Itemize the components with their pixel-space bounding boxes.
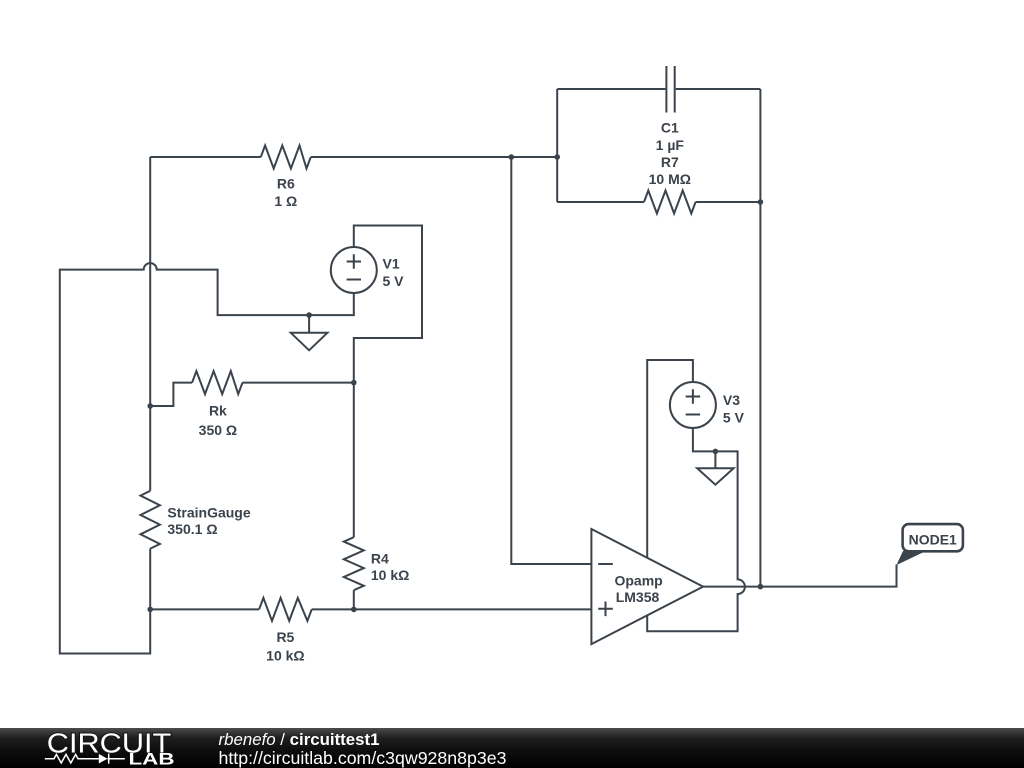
svg-text:R7: R7 (661, 154, 679, 170)
junction dot at R5 right / R4 bottom (351, 607, 357, 613)
junction dot on top net at inverting branch (509, 154, 515, 160)
wire R7 bottom horizontal (557, 201, 760, 203)
svg-text:10 kΩ: 10 kΩ (266, 647, 304, 663)
wire C1 box left vertical (556, 89, 558, 202)
resistor R7 (644, 154, 696, 214)
svg-text:LAB: LAB (129, 750, 175, 768)
resistor R6 (261, 146, 311, 209)
resistor R5 (259, 598, 312, 663)
wire R5 horizontal: left segment and right segment continuing to opamp + input (150, 608, 591, 610)
svg-text:10 kΩ: 10 kΩ (371, 567, 409, 583)
ground for V3 (697, 451, 733, 484)
wire right vertical from C1 box down to output junction (759, 89, 761, 587)
resistor R4 (344, 537, 410, 590)
svg-text:5 V: 5 V (383, 273, 405, 289)
CircuitLab logo text LAB (129, 750, 175, 768)
footer url (219, 748, 507, 768)
junction dot at opamp output / right vertical (758, 584, 764, 590)
svg-text:NODE1: NODE1 (909, 531, 957, 547)
svg-text:http://circuitlab.com/c3qw928n: http://circuitlab.com/c3qw928n8p3e3 (219, 748, 507, 768)
footer bar (0, 728, 1024, 768)
resistor Rk (192, 371, 242, 438)
svg-text:5 V: 5 V (723, 409, 745, 425)
voltage source V1 (331, 247, 404, 293)
svg-text:Opamp: Opamp (614, 572, 662, 588)
svg-text:R4: R4 (371, 550, 389, 566)
svg-text:Rk: Rk (209, 402, 227, 418)
junction dot at Rk left on left vertical (147, 403, 153, 409)
op-amp U1 Opamp LM358 (591, 529, 703, 644)
junction dot at R5 left / StrainGauge bottom (147, 607, 153, 613)
svg-text:StrainGauge: StrainGauge (167, 505, 250, 521)
svg-text:1 µF: 1 µF (656, 137, 685, 153)
svg-text:350.1 Ω: 350.1 Ω (167, 521, 217, 537)
junction dot at V3 ground tap (713, 449, 719, 455)
svg-text:350 Ω: 350 Ω (199, 422, 237, 438)
ground for V1 (291, 315, 328, 350)
wire Rk left step from node on left vertical (150, 383, 192, 406)
svg-text:R6: R6 (277, 176, 295, 192)
junction dot at R7 right / right vertical (758, 199, 764, 205)
svg-text:1 Ω: 1 Ω (274, 193, 297, 209)
wire top horizontal net at y=157 from left vertical to C1 box (150, 156, 557, 158)
wire left vertical from R6 left terminal down to StrainGauge top (149, 157, 151, 491)
capacitor C1 (656, 66, 685, 153)
svg-text:LM358: LM358 (616, 589, 660, 605)
wire opamp output with hop over V- wire, to NODE1 flag (703, 565, 896, 587)
wire C1 top horizontal (557, 88, 760, 90)
junction dot at Rk right on V1/R4 vertical (351, 380, 357, 386)
wire inverting input vertical from top net down to opamp - input (511, 157, 591, 564)
svg-text:V1: V1 (383, 255, 400, 271)
junction dot on top net at C1 box left (554, 154, 560, 160)
CircuitLab logo text CIRCUIT (47, 728, 172, 759)
wire Rk right to V1/R4 vertical (243, 382, 354, 384)
wire V1 positive loop: top, right side, bottom, down to R4 and R5 junction (354, 226, 422, 610)
wire opamp V+ supply up and over to V3 top (647, 360, 693, 558)
voltage source V3 (670, 382, 745, 428)
svg-text:R5: R5 (276, 629, 294, 645)
svg-text:V3: V3 (723, 392, 740, 408)
node NODE1 flag (897, 524, 963, 565)
wire V3 negative terminal right and down to opamp V- supply (647, 428, 745, 631)
svg-text:C1: C1 (661, 119, 679, 135)
CircuitLab logo resistor-diode symbol (45, 754, 125, 764)
footer title rbenefo / circuittest1 (219, 730, 380, 749)
junction dot at V1 ground tap (306, 312, 312, 318)
resistor StrainGauge (141, 491, 251, 549)
wire V1 negative terminal to left loop (hop over x=150 vertical) down and around to R5 junction (60, 263, 354, 653)
svg-text:10 MΩ: 10 MΩ (649, 171, 691, 187)
svg-text:rbenefo / circuittest1: rbenefo / circuittest1 (219, 730, 380, 749)
wire StrainGauge bottom down to R5 junction (149, 549, 151, 610)
